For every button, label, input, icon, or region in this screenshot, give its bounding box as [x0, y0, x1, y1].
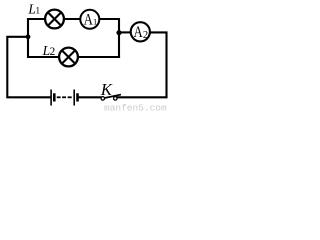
svg-text:A: A — [134, 24, 144, 42]
svg-text:1: 1 — [35, 7, 40, 17]
svg-text:K: K — [100, 80, 113, 99]
svg-text:1: 1 — [93, 17, 97, 27]
svg-text:manfen5.com: manfen5.com — [104, 103, 167, 113]
svg-text:2: 2 — [143, 30, 148, 41]
svg-text:2: 2 — [50, 46, 56, 58]
svg-text:A: A — [84, 11, 94, 29]
